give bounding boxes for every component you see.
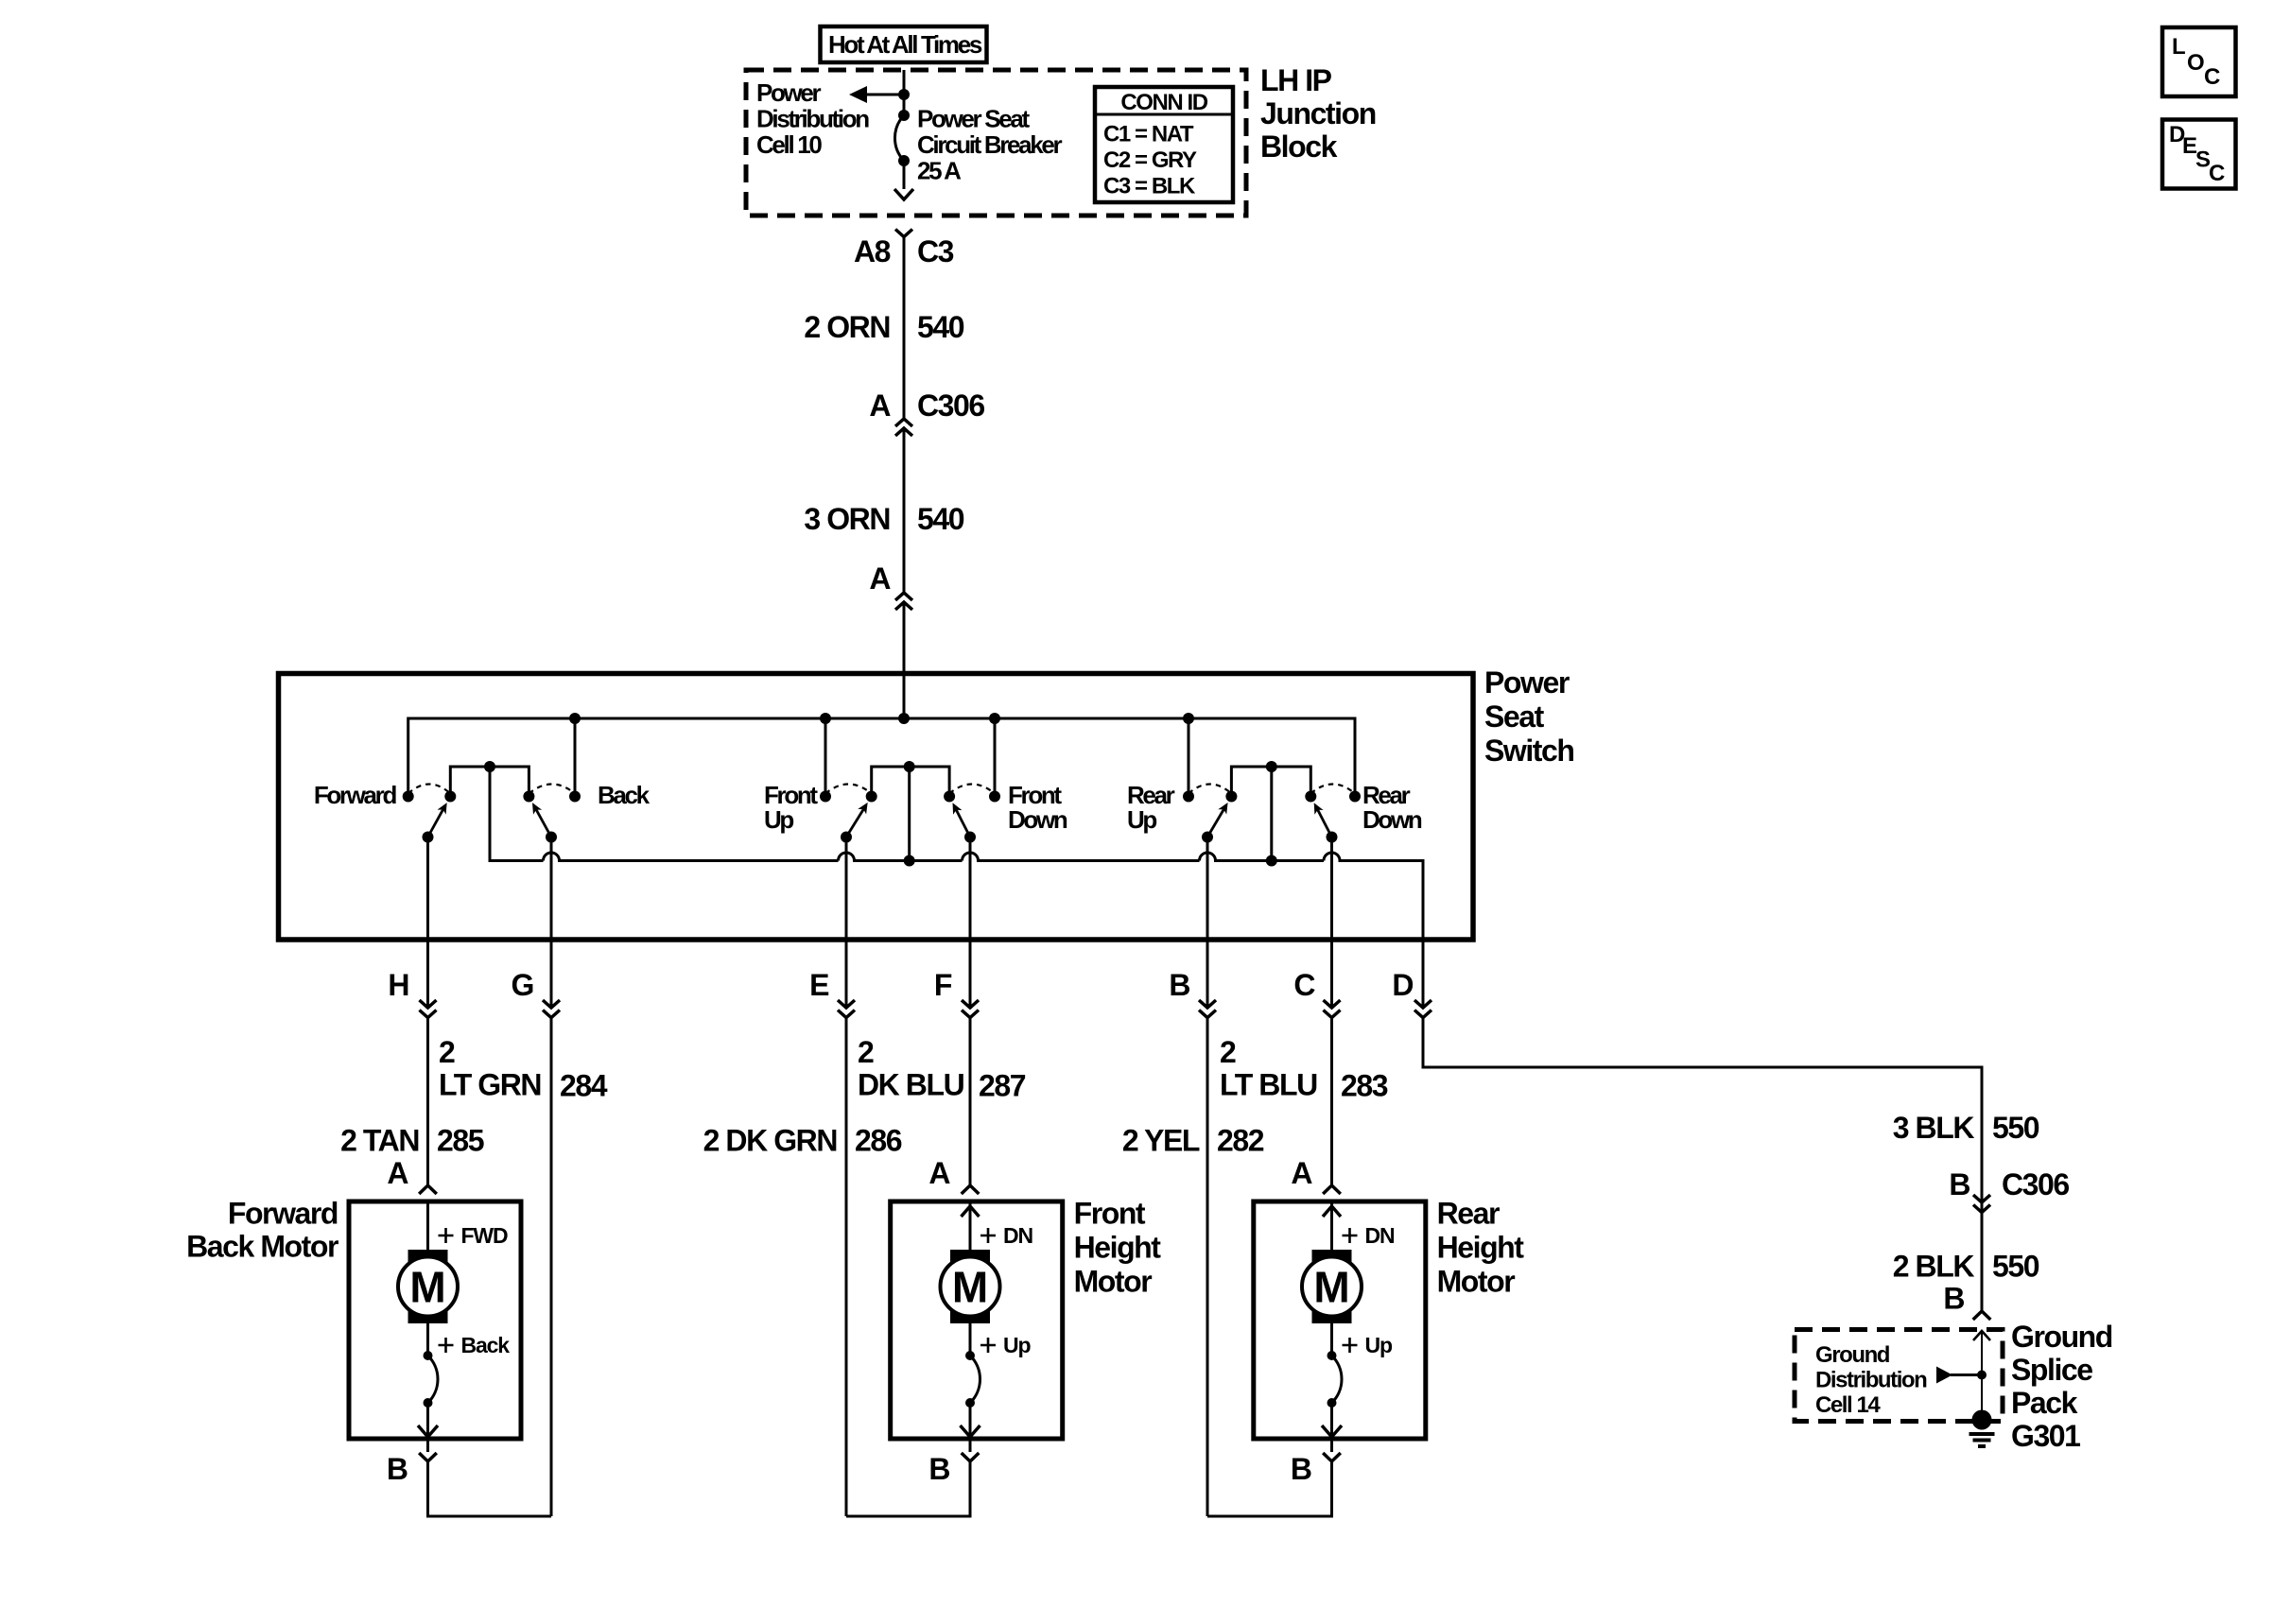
DESC tag box [2162, 120, 2236, 189]
switch blade G (back) [536, 809, 551, 838]
svg-text:Ground: Ground [1815, 1342, 1890, 1368]
svg-text:3 BLK: 3 BLK [1893, 1111, 1975, 1145]
svg-text:M: M [409, 1263, 445, 1312]
wire pin G down to motor return [550, 1018, 553, 1517]
svg-text:H: H [388, 968, 408, 1002]
svg-text:C1 = NAT: C1 = NAT [1103, 122, 1194, 147]
svg-text:A: A [869, 561, 891, 596]
svg-text:2 ORN: 2 ORN [804, 310, 890, 344]
switch blade F (front down) [956, 809, 970, 838]
svg-text:25 A: 25 A [917, 157, 962, 185]
svg-text:LH IP: LH IP [1260, 63, 1332, 97]
svg-text:C: C [2209, 161, 2225, 186]
svg-text:B: B [1169, 968, 1189, 1002]
wire feed into junction block [903, 70, 906, 115]
svg-text:Forward: Forward [314, 781, 397, 809]
connector B at ground splice pack [1973, 1311, 1991, 1320]
svg-text:Splice: Splice [2011, 1353, 2092, 1387]
dashed throw arc Forward [408, 785, 451, 794]
svg-text:Down: Down [1008, 805, 1067, 834]
pin D connector (double chevron) [1414, 1000, 1431, 1008]
pin G connector (double chevron) [543, 1000, 560, 1008]
svg-text:Motor: Motor [1437, 1265, 1516, 1299]
wire motor A lead (forward back) [426, 1201, 429, 1250]
pole bridge (front height switch) [872, 767, 949, 797]
svg-text:B: B [1949, 1167, 1969, 1201]
stub wire to Back contact [574, 718, 577, 797]
svg-text:2: 2 [439, 1035, 455, 1069]
svg-text:E: E [809, 968, 829, 1002]
svg-text:Distribution: Distribution [1815, 1368, 1927, 1393]
wire front height motor B return to pin E [846, 1461, 970, 1516]
contact Forward [403, 791, 414, 803]
svg-text:L: L [2172, 34, 2185, 60]
svg-text:550: 550 [1992, 1111, 2039, 1145]
wire motor A lead (rear height) [1330, 1201, 1333, 1250]
wire rear height motor B return to pin B [1207, 1461, 1332, 1516]
svg-text:Seat: Seat [1484, 700, 1545, 734]
label + DN [980, 1228, 996, 1243]
dashed throw arc Back [529, 785, 575, 794]
wire switch blade to pin C [1330, 838, 1333, 1009]
svg-text:Power: Power [1484, 665, 1570, 700]
svg-text:G: G [512, 968, 533, 1002]
wire motor A lead (front height) [969, 1201, 972, 1250]
svg-text:A8: A8 [854, 234, 891, 268]
svg-text:Front: Front [1074, 1197, 1146, 1231]
center tap wire of forward/back switch [490, 767, 544, 861]
svg-text:Block: Block [1260, 130, 1338, 164]
connector B at rear height motor [1330, 1439, 1333, 1452]
pin B connector (double chevron) [1199, 1000, 1216, 1008]
pole bridge (forward/back switch) [450, 767, 529, 797]
wire switch blade to pin F [969, 838, 972, 1009]
svg-text:O: O [2187, 50, 2204, 76]
label + Up [1343, 1338, 1358, 1353]
wire switch blade to pin H [426, 838, 429, 1009]
LOC tag box [2162, 27, 2236, 96]
svg-text:2 TAN: 2 TAN [340, 1124, 419, 1158]
label + DN [1343, 1228, 1358, 1243]
svg-text:540: 540 [917, 310, 964, 344]
center tap wire of front height switch [908, 767, 911, 861]
svg-text:C306: C306 [917, 389, 984, 423]
svg-text:A: A [928, 1156, 950, 1190]
power seat switch box [279, 674, 1474, 941]
svg-text:Hot At All Times: Hot At All Times [828, 30, 982, 59]
svg-text:Down: Down [1362, 805, 1422, 834]
svg-text:B: B [1291, 1452, 1311, 1486]
dashed throw arc Front Down [949, 785, 995, 794]
svg-text:Pack: Pack [2011, 1386, 2078, 1420]
circuit breaker CB1 25A (Power Seat Circuit Breaker) [898, 110, 910, 121]
svg-text:C3 = BLK: C3 = BLK [1103, 174, 1196, 199]
svg-text:C3: C3 [917, 234, 954, 268]
thermal protector (forward back motor) [426, 1323, 429, 1356]
ground distribution box (dashed) [1795, 1330, 2003, 1422]
svg-text:Power Seat: Power Seat [917, 105, 1030, 133]
svg-text:283: 283 [1341, 1069, 1388, 1103]
wire pin E down to motor return [845, 1018, 848, 1517]
svg-text:287: 287 [979, 1069, 1026, 1103]
contact Front Down [989, 791, 1000, 803]
common return wire to pin D [490, 853, 1423, 1008]
svg-text:A: A [387, 1156, 408, 1190]
svg-text:Back Motor: Back Motor [186, 1230, 338, 1264]
thermal protector (front height motor) [969, 1323, 972, 1356]
label + Back [439, 1338, 454, 1353]
ground symbol [1969, 1434, 1995, 1446]
connector B at front height motor [969, 1439, 972, 1452]
connector A at power seat switch [895, 593, 912, 600]
stub wire to Rear Up contact [1188, 718, 1190, 797]
contact Rear Up [1183, 791, 1194, 803]
svg-text:Switch: Switch [1484, 734, 1574, 768]
svg-text:Circuit Breaker: Circuit Breaker [917, 130, 1063, 159]
svg-text:284: 284 [560, 1069, 608, 1103]
wire to power distribution (arrow left) [866, 94, 904, 96]
svg-text:Up: Up [1365, 1333, 1393, 1357]
svg-text:2 BLK: 2 BLK [1893, 1250, 1975, 1284]
svg-text:Forward: Forward [228, 1197, 338, 1231]
svg-text:Back: Back [461, 1333, 511, 1357]
svg-text:Power: Power [756, 78, 822, 107]
svg-text:LT BLU: LT BLU [1220, 1068, 1317, 1102]
contact Back [569, 791, 581, 803]
svg-text:Height: Height [1074, 1231, 1162, 1265]
wire into power seat switch [903, 602, 906, 718]
wire forward back motor B return to pin G [428, 1461, 552, 1516]
center tap wire of rear height switch [1270, 767, 1273, 861]
svg-text:C306: C306 [2002, 1167, 2069, 1201]
pin H connector (double chevron) [420, 1000, 437, 1008]
svg-text:C: C [2204, 64, 2220, 90]
wire into ground splice pack [1981, 1331, 1983, 1420]
svg-text:2 DK GRN: 2 DK GRN [703, 1124, 837, 1158]
svg-text:D: D [1392, 968, 1413, 1002]
bus wire inside switch [408, 718, 1355, 797]
svg-text:Up: Up [1127, 805, 1156, 834]
power distribution tag box (Hot At All Times) [821, 26, 987, 62]
wire pin H to forward back motor [426, 1018, 429, 1186]
svg-text:M: M [1313, 1263, 1349, 1312]
svg-text:Up: Up [764, 805, 793, 834]
svg-text:DN: DN [1003, 1223, 1032, 1248]
pin E connector (double chevron) [838, 1000, 855, 1008]
svg-text:DN: DN [1365, 1223, 1395, 1248]
svg-text:Rear: Rear [1437, 1197, 1500, 1231]
label + Up [980, 1338, 996, 1353]
contact Rear Down [1349, 791, 1361, 803]
svg-text:CONN ID: CONN ID [1120, 90, 1207, 115]
wire pin D to ground splice (3 BLK 550) [1423, 1018, 1982, 1312]
wire pin F to front height motor [969, 1018, 972, 1186]
svg-text:LT GRN: LT GRN [439, 1068, 541, 1102]
svg-text:C2 = GRY: C2 = GRY [1103, 147, 1197, 173]
pole bridge (rear height switch) [1231, 767, 1310, 797]
ground splice G301 [1972, 1410, 1992, 1430]
svg-text:285: 285 [437, 1124, 484, 1158]
svg-text:540: 540 [917, 502, 964, 536]
svg-text:DK BLU: DK BLU [858, 1068, 964, 1102]
wire ground distribution branch (arrow) [1951, 1373, 1982, 1376]
motor box (rear height motor) [1254, 1201, 1426, 1439]
switch blade H (forward) [428, 809, 444, 838]
node feed-bus junction [898, 713, 910, 724]
motor M1 armature (rear height) [1312, 1250, 1352, 1323]
svg-text:B: B [387, 1452, 408, 1486]
stub wire to Front Up contact [824, 718, 827, 797]
pin F connector (double chevron) [962, 1000, 979, 1008]
svg-text:3 ORN: 3 ORN [804, 502, 890, 536]
stub wire to Front Down contact [994, 718, 997, 797]
svg-text:Back: Back [598, 781, 651, 809]
svg-text:Motor: Motor [1074, 1265, 1153, 1299]
dashed throw arc Rear Up [1189, 785, 1231, 794]
motor M1 armature (front height) [950, 1250, 990, 1323]
label + FWD [439, 1228, 454, 1243]
svg-text:2: 2 [858, 1035, 874, 1069]
connector A8/C3 at junction block exit [895, 230, 912, 237]
wire switch blade to pin G [550, 838, 553, 1009]
svg-text:Height: Height [1437, 1231, 1525, 1265]
svg-text:C: C [1293, 968, 1315, 1002]
CONN ID table box [1095, 87, 1233, 202]
connector C306 (in-line, double chevron) [895, 419, 912, 426]
connector A at rear height motor [1323, 1185, 1341, 1194]
svg-text:Cell 14: Cell 14 [1815, 1392, 1881, 1418]
contact Front Up [820, 791, 831, 803]
svg-text:A: A [1291, 1156, 1312, 1190]
svg-text:Up: Up [1003, 1333, 1031, 1357]
svg-text:M: M [952, 1263, 988, 1312]
pin C connector (double chevron) [1324, 1000, 1341, 1008]
svg-text:282: 282 [1217, 1124, 1264, 1158]
svg-text:550: 550 [1992, 1250, 2039, 1284]
svg-text:FWD: FWD [461, 1223, 508, 1248]
switch blade B (rear up) [1207, 808, 1224, 837]
connector C306 ground side (double chevron) [1973, 1195, 1990, 1202]
svg-text:A: A [869, 389, 891, 423]
motor M1 armature (forward back) [408, 1250, 448, 1323]
wire pin C to rear height motor [1330, 1018, 1333, 1186]
wire 3 ORN 540 [903, 428, 906, 593]
svg-text:B: B [928, 1452, 949, 1486]
connector A at forward back motor [419, 1185, 437, 1194]
wire switch blade to pin B [1206, 838, 1209, 1009]
wire switch blade to pin E [845, 838, 848, 1009]
connector B at forward back motor [426, 1439, 429, 1452]
svg-text:Cell 10: Cell 10 [756, 130, 822, 159]
connector A at front height motor [962, 1185, 980, 1194]
LH IP junction block (dashed) [746, 70, 1246, 216]
svg-text:2 YEL: 2 YEL [1122, 1124, 1200, 1158]
svg-text:2: 2 [1220, 1035, 1236, 1069]
motor box (forward back motor) [349, 1201, 521, 1439]
svg-text:Ground: Ground [2011, 1320, 2112, 1354]
svg-text:286: 286 [855, 1124, 902, 1158]
svg-text:Junction: Junction [1260, 96, 1376, 130]
svg-text:F: F [934, 968, 952, 1002]
wire pin B down to motor return [1206, 1018, 1209, 1517]
wire 2 ORN 540 [903, 237, 906, 420]
node feed junction [898, 89, 910, 100]
svg-text:Distribution: Distribution [756, 105, 869, 133]
switch blade E (front up) [846, 808, 864, 837]
dashed throw arc Rear Down [1310, 785, 1355, 794]
svg-text:G301: G301 [2011, 1419, 2080, 1453]
motor box (front height motor) [891, 1201, 1063, 1439]
switch blade C (rear down) [1317, 809, 1331, 838]
svg-text:B: B [1943, 1282, 1964, 1316]
dashed throw arc Front Up [825, 785, 872, 794]
thermal protector (rear height motor) [1330, 1323, 1333, 1356]
